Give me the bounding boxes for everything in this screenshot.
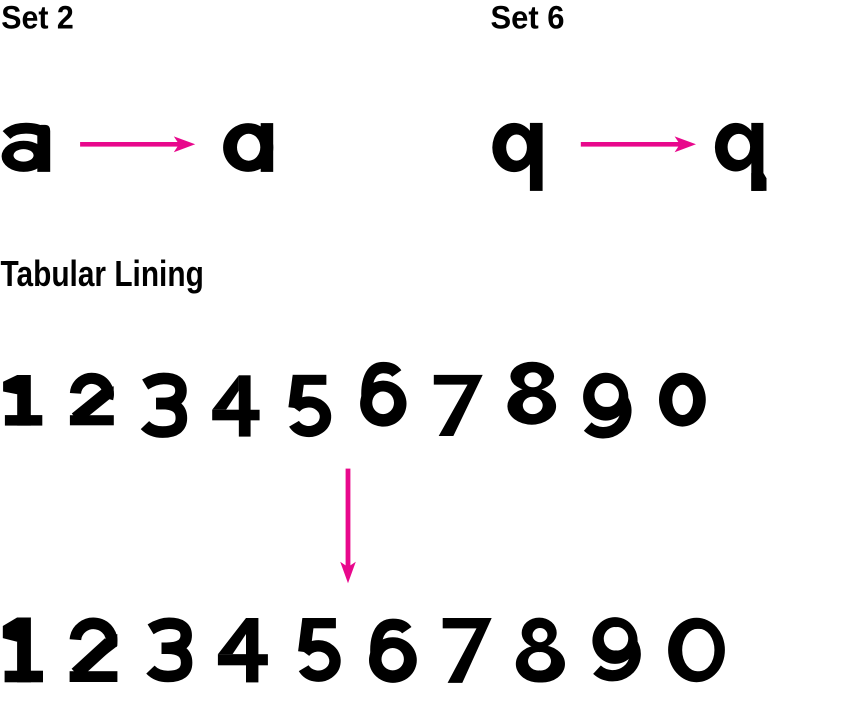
glyph q with tail (715, 123, 767, 191)
bottom tabular digit 0 (668, 618, 725, 682)
svg-text:Tabular Lining: Tabular Lining (1, 253, 204, 294)
glyph q (plain) (492, 123, 542, 191)
top oldstyle digit 9 (583, 373, 628, 433)
top oldstyle digit 2 (70, 378, 114, 425)
top oldstyle digit 4 (212, 375, 259, 436)
bottom tabular digit 9 (592, 617, 637, 676)
arrow down (340, 469, 356, 584)
bottom tabular digit 8 (516, 618, 565, 683)
glyph a (double-story) (2, 125, 51, 172)
bottom tabular digit 2 (70, 623, 118, 682)
arrow a to alpha (80, 136, 195, 152)
bottom tabular digit 3 (150, 623, 186, 676)
top oldstyle digit 3 (145, 378, 181, 432)
glyph single-story alpha (223, 123, 273, 172)
top oldstyle digit 6 (360, 368, 406, 427)
top oldstyle digit 1 (3, 375, 42, 426)
bottom tabular digit 7 (443, 618, 492, 683)
arrow q to q-tail (581, 136, 696, 152)
bottom tabular digit 5 (302, 618, 336, 676)
top oldstyle digit 7 (434, 375, 483, 436)
svg-text:Set 2: Set 2 (1, 0, 74, 36)
bottom tabular digit 6 (369, 624, 417, 683)
top oldstyle digit 5 (293, 375, 327, 432)
svg-text:Set 6: Set 6 (491, 0, 565, 36)
bottom tabular digit 1 (3, 618, 43, 683)
top oldstyle digit 0 (659, 373, 706, 427)
bottom tabular digit 4 (218, 618, 268, 682)
top oldstyle digit 8 (507, 362, 556, 425)
